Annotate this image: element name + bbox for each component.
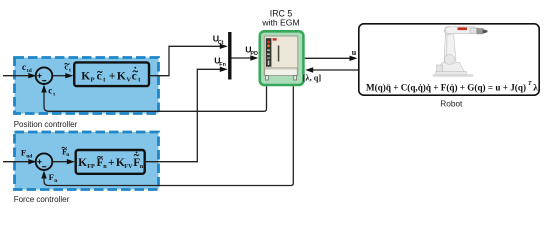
svg-text:n: n	[103, 163, 107, 170]
base pedestal	[438, 63, 464, 72]
upper arm	[446, 27, 477, 34]
svg-text:with EGM: with EGM	[261, 18, 299, 28]
force feedback wire F_n from EGM	[44, 86, 293, 185]
svg-text:u: u	[352, 48, 357, 57]
wire force block output to mux (U_Fn)	[145, 69, 222, 161]
label F~_n	[62, 146, 70, 158]
shoulder joint	[444, 26, 452, 34]
label U_Fn	[214, 56, 226, 68]
svg-text:+: +	[109, 71, 116, 83]
svg-text:n: n	[140, 163, 144, 170]
lower arm link	[444, 32, 456, 64]
svg-text:Force controller: Force controller	[14, 195, 70, 204]
base plate	[436, 71, 467, 75]
svg-text:Position controller: Position controller	[14, 120, 78, 129]
robot dynamics equation	[366, 81, 538, 94]
label U_Ct	[213, 34, 224, 47]
svg-text:c: c	[64, 61, 68, 71]
wrist tool	[477, 29, 483, 34]
svg-text:Robot: Robot	[440, 99, 463, 109]
label U_PD	[245, 45, 258, 57]
svg-text:PD: PD	[250, 51, 258, 57]
label c_t	[48, 85, 55, 97]
svg-text:c: c	[22, 62, 26, 72]
svg-text:Fn: Fn	[219, 62, 226, 68]
IRC5 cabinet drawing	[264, 36, 298, 80]
svg-text:t: t	[53, 91, 55, 97]
wire sum to force block	[52, 159, 75, 164]
svg-text:[λ, q]: [λ, q]	[303, 73, 322, 82]
wire mux to IRC5 (U_PD)	[232, 57, 253, 59]
elbow joint	[445, 55, 455, 65]
svg-text:Ct: Ct	[218, 40, 224, 46]
red stripe	[458, 27, 468, 30]
svg-text:K: K	[81, 71, 90, 83]
wire position block output to mux (U_Ct)	[149, 46, 222, 75]
wire sum to position block	[52, 73, 73, 78]
position PD block equation K_P c~_t + K_V cdot~_t	[81, 67, 141, 84]
svg-text:F: F	[49, 172, 54, 182]
svg-text:nd: nd	[26, 154, 33, 160]
IRC5 title	[261, 9, 299, 28]
svg-text:T: T	[528, 81, 532, 87]
svg-text:K: K	[78, 157, 87, 169]
label F_n	[49, 172, 59, 184]
wire [lambda,q] robot to IRC5	[311, 69, 358, 71]
forearm extension	[470, 28, 479, 33]
base left step	[437, 65, 443, 72]
wire input c_td	[3, 73, 36, 78]
summing junction force	[36, 153, 53, 170]
position controller dashed box	[15, 58, 159, 114]
svg-text:λ: λ	[533, 84, 538, 94]
force PD block	[76, 150, 145, 174]
robot arm graphic	[433, 26, 488, 76]
force PD block equation K_FP F~_n + K_FV Fdot~_n	[78, 152, 144, 171]
position feedback wire c_t from EGM	[44, 86, 267, 111]
svg-text:+: +	[108, 157, 115, 169]
force controller dashed box	[15, 132, 159, 190]
svg-text:c: c	[48, 85, 52, 95]
svg-text:FP: FP	[87, 163, 95, 170]
svg-text:td: td	[27, 68, 33, 74]
svg-text:K: K	[117, 71, 126, 83]
robot box	[359, 24, 539, 95]
svg-text:M(q)q̈ + C(q,q̇)q̇ + F(q̇) + G: M(q)q̈ + C(q,q̇)q̇ + F(q̇) + G(q) = u + …	[366, 83, 526, 94]
svg-text:t: t	[69, 67, 71, 73]
svg-text:c: c	[132, 71, 137, 83]
summing junction position	[36, 67, 53, 84]
svg-text:FV: FV	[124, 163, 133, 170]
label F_nd	[21, 148, 33, 160]
label c_td	[22, 62, 33, 74]
ground shadow	[433, 74, 474, 76]
mux bar	[228, 32, 231, 80]
position PD block	[74, 62, 149, 86]
wire u IRC5 to robot	[305, 57, 351, 59]
wire input F_nd	[3, 159, 36, 164]
svg-text:P: P	[91, 77, 95, 84]
IRC5 with EGM green box	[260, 31, 304, 85]
label c~_t	[64, 61, 71, 73]
